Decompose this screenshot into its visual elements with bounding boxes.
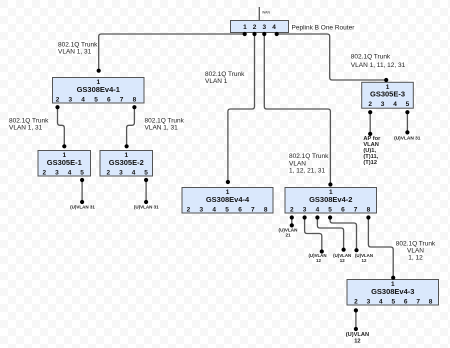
node dot GS308Ev4-1 port2 [55, 105, 59, 109]
svg-text:802.1Q Trunk: 802.1Q Trunk [205, 71, 245, 78]
wire GS308Ev4-3 port2 drop [355, 310, 357, 329]
wire GS308Ev4-1 port2 to GS305E-1 [58, 107, 65, 146]
svg-text:802.1Q Trunk: 802.1Q Trunk [396, 240, 436, 247]
svg-text:2: 2 [106, 169, 110, 176]
switch GS308Ev4-3 box [347, 280, 439, 306]
svg-text:5: 5 [328, 206, 332, 213]
svg-text:GS308Ev4-2: GS308Ev4-2 [309, 195, 352, 204]
node dot at GS305E-3 port1 [384, 78, 388, 82]
junction dot router port2 [252, 32, 256, 36]
wire router port1 to GS308Ev4-1 [99, 34, 245, 71]
svg-text:4: 4 [393, 101, 397, 108]
svg-text:3: 3 [55, 169, 59, 176]
svg-text:3: 3 [119, 169, 123, 176]
wire GS305E-2 port5 drop [145, 180, 147, 202]
svg-text:GS308Ev4-4: GS308Ev4-4 [206, 195, 250, 204]
node dot GS308Ev4-2 port3 [303, 215, 307, 219]
svg-text:VLAN 1, 31: VLAN 1, 31 [9, 124, 43, 131]
wire GS305E-3 port5 drop [406, 112, 408, 132]
svg-text:5: 5 [144, 169, 148, 176]
node dot above GS308Ev4-4 [226, 180, 230, 184]
switch GS308Ev4-1 box [53, 78, 145, 104]
wire GS305E-3 port2 drop [369, 112, 371, 134]
svg-text:2: 2 [187, 206, 191, 213]
svg-text:8: 8 [429, 298, 433, 305]
node dot GS308Ev4-2 port8 [366, 215, 370, 219]
svg-text:4: 4 [272, 24, 276, 31]
svg-text:12: 12 [316, 258, 321, 263]
node dot GS308Ev4-2 port2 [290, 215, 294, 219]
junction dot router port1 [243, 32, 247, 36]
svg-text:1, 12: 1, 12 [408, 254, 423, 261]
svg-text:5: 5 [391, 298, 395, 305]
junction dot router port3 [262, 32, 266, 36]
switch GS308Ev4-2 box [285, 188, 377, 214]
svg-text:(T)12: (T)12 [363, 160, 377, 166]
node dot above GS308Ev4-3 [391, 276, 395, 280]
svg-text:21: 21 [285, 233, 291, 238]
node dot end AP drop [368, 132, 372, 136]
svg-text:8: 8 [133, 96, 137, 103]
svg-text:5: 5 [80, 169, 84, 176]
wire router port3 to GS308Ev4-2 [264, 34, 330, 185]
node dot end port4 drop [342, 248, 346, 252]
svg-text:2: 2 [42, 169, 46, 176]
svg-text:2: 2 [56, 96, 60, 103]
wire GS308Ev4-2 port2 drop [291, 218, 293, 226]
node dot above GS308Ev4-2 [328, 182, 332, 186]
svg-text:WAN: WAN [262, 11, 271, 15]
node dot end GS305E-3 port5 drop [405, 130, 409, 134]
svg-text:Peplink B One Router: Peplink B One Router [292, 25, 356, 32]
junction dot router port4 [275, 32, 279, 36]
wire GS308Ev4-2 port3 drop [305, 218, 322, 252]
switch GS305E-3 box [362, 82, 414, 108]
switch GS305E-1 box [38, 151, 91, 177]
node dot GS308Ev4-2 port4 [315, 215, 319, 219]
node dot end GS308Ev4-3 drop [354, 327, 358, 331]
node dot end port2 drop [290, 223, 294, 227]
svg-text:VLAN 1, 31: VLAN 1, 31 [58, 48, 92, 55]
svg-text:(U)VLAN 31: (U)VLAN 31 [70, 204, 95, 209]
svg-text:12: 12 [340, 258, 345, 263]
node dot end port5 drop [354, 248, 358, 252]
node dot above GS305E-1 [62, 144, 66, 148]
svg-text:8: 8 [264, 206, 268, 213]
svg-text:3: 3 [303, 206, 307, 213]
node dot above GS305E-2 [125, 144, 129, 148]
node dot end GS305E-2 drop [144, 200, 148, 204]
svg-text:8: 8 [367, 206, 371, 213]
svg-text:2: 2 [354, 298, 358, 305]
svg-text:1, 12, 21, 31: 1, 12, 21, 31 [289, 168, 326, 175]
router U1 Peplink B One box [231, 21, 289, 33]
svg-text:6: 6 [341, 206, 345, 213]
svg-text:12: 12 [362, 258, 367, 263]
node dot GS308Ev4-3 port2 [354, 308, 358, 312]
wire router port4 to GS305E-3 [277, 34, 387, 80]
svg-text:GS305E-3: GS305E-3 [370, 90, 405, 99]
switch GS308Ev4-4 box [182, 188, 273, 214]
svg-text:4: 4 [316, 206, 320, 213]
svg-text:2: 2 [368, 101, 372, 108]
svg-text:GS305E-2: GS305E-2 [109, 158, 144, 167]
node dot GS305E-2 port5 [144, 178, 148, 182]
wire router port2 to GS308Ev4-4 [228, 34, 255, 182]
svg-text:2: 2 [253, 24, 257, 31]
node dot GS308Ev4-2 port5 [328, 215, 332, 219]
svg-text:VLAN: VLAN [407, 247, 424, 254]
svg-text:4: 4 [132, 169, 136, 176]
svg-text:VLAN 1, 11, 12, 31: VLAN 1, 11, 12, 31 [351, 62, 406, 69]
node dot end GS305E-1 drop [80, 200, 84, 204]
node dot GS305E-3 port5 [405, 110, 409, 114]
svg-text:(U)VLAN: (U)VLAN [346, 332, 369, 338]
svg-text:802.1Q Trunk: 802.1Q Trunk [9, 117, 49, 124]
svg-text:3: 3 [68, 96, 72, 103]
node dot GS305E-1 port5 [80, 178, 84, 182]
wire GS308Ev4-2 port5 drop [330, 218, 356, 251]
svg-text:5: 5 [406, 101, 410, 108]
svg-text:VLAN 1: VLAN 1 [205, 78, 228, 85]
svg-text:(U)VLAN: (U)VLAN [279, 227, 299, 232]
svg-text:GS308Ev4-1: GS308Ev4-1 [77, 85, 120, 94]
svg-text:802.1Q Trunk: 802.1Q Trunk [289, 153, 329, 160]
svg-text:5: 5 [225, 206, 229, 213]
svg-text:6: 6 [107, 96, 111, 103]
svg-text:3: 3 [262, 24, 266, 31]
svg-text:5: 5 [94, 96, 98, 103]
svg-text:6: 6 [404, 298, 408, 305]
svg-text:VLAN 1, 31: VLAN 1, 31 [145, 124, 179, 131]
svg-text:3: 3 [381, 101, 385, 108]
svg-text:7: 7 [354, 206, 358, 213]
svg-text:802.1Q Trunk: 802.1Q Trunk [145, 117, 185, 124]
node dot GS305E-3 port2 [368, 110, 372, 114]
svg-text:VLAN: VLAN [289, 160, 306, 167]
node dot above GS308Ev4-1 [97, 69, 101, 73]
node dot GS308Ev4-1 port8 [132, 105, 136, 109]
svg-text:2: 2 [290, 206, 294, 213]
svg-text:12: 12 [354, 339, 360, 345]
svg-text:GS308Ev4-3: GS308Ev4-3 [371, 287, 414, 296]
switch GS305E-2 box [100, 151, 153, 177]
wire GS305E-1 port5 drop [81, 180, 83, 202]
svg-text:7: 7 [120, 96, 124, 103]
svg-text:3: 3 [367, 298, 371, 305]
svg-text:6: 6 [238, 206, 242, 213]
wire GS308Ev4-1 port8 to GS305E-2 [127, 107, 135, 146]
svg-text:4: 4 [379, 298, 383, 305]
svg-text:802.1Q Trunk: 802.1Q Trunk [58, 41, 98, 48]
svg-text:(U)VLAN 31: (U)VLAN 31 [394, 136, 421, 142]
wire GS308Ev4-2 port8 to GS308Ev4-3 [368, 218, 393, 278]
svg-text:1: 1 [243, 24, 247, 31]
svg-text:4: 4 [212, 206, 216, 213]
svg-text:3: 3 [199, 206, 203, 213]
svg-text:4: 4 [68, 169, 72, 176]
wire GS308Ev4-2 port4 drop [317, 218, 343, 250]
wire WAN uplink [258, 7, 260, 21]
svg-text:(U)VLAN 31: (U)VLAN 31 [134, 204, 159, 209]
svg-text:802.1Q Trunk: 802.1Q Trunk [351, 54, 391, 61]
svg-text:GS305E-1: GS305E-1 [47, 158, 82, 167]
svg-text:4: 4 [81, 96, 85, 103]
svg-text:7: 7 [416, 298, 420, 305]
svg-text:7: 7 [251, 206, 255, 213]
node dot end port3 drop [320, 249, 324, 253]
